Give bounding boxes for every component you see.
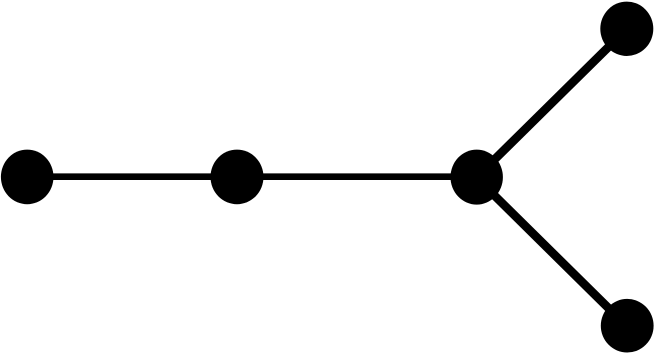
node E bbox=[601, 299, 654, 353]
node B bbox=[211, 150, 264, 205]
node D bbox=[600, 2, 653, 56]
wire A-B bbox=[27, 173, 237, 180]
wire C-D bbox=[477, 29, 627, 177]
wire C-E bbox=[476, 177, 627, 326]
node A bbox=[1, 150, 54, 205]
node C bbox=[451, 150, 503, 205]
wire B-C bbox=[237, 173, 477, 180]
